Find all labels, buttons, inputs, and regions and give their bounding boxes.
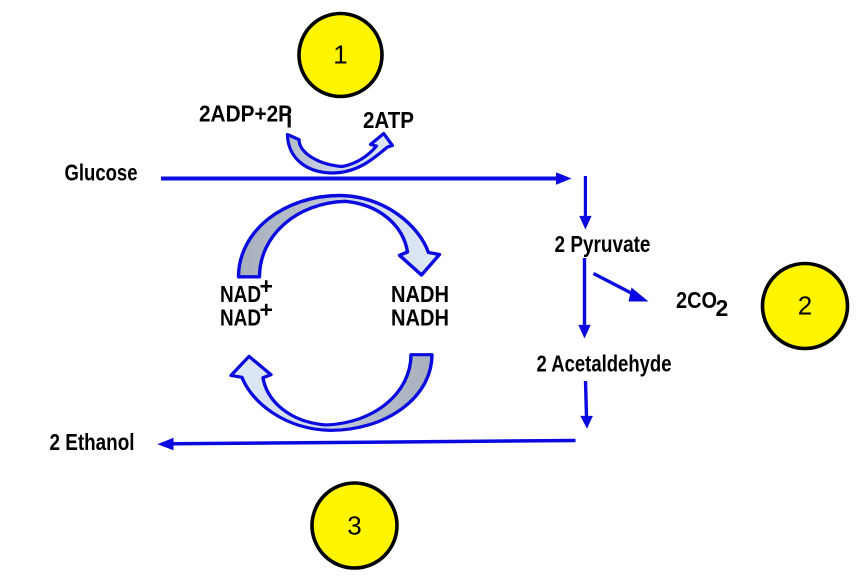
step circle 1: [299, 14, 382, 97]
svg-text:NADH: NADH: [391, 281, 449, 307]
svg-text:2: 2: [716, 295, 729, 321]
svg-text:2: 2: [798, 291, 812, 321]
svg-text:3: 3: [347, 511, 361, 541]
NAD+ / NADH cycle: top curved arrow: [239, 196, 440, 277]
arrow glucose to pyruvate (vertical): [579, 176, 591, 230]
svg-text:2 Acetaldehyde: 2 Acetaldehyde: [537, 351, 672, 377]
arrow acetaldehyde to ethanol (vertical): [580, 381, 593, 429]
label 2CO2: [676, 287, 728, 321]
step circle 3: [312, 483, 397, 568]
ATP curved arrow: [287, 134, 392, 174]
svg-text:2 Pyruvate: 2 Pyruvate: [555, 231, 651, 257]
step circle 2: [763, 264, 848, 349]
glucose arrow (horizontal): [161, 172, 572, 184]
svg-text:+: +: [260, 273, 273, 299]
svg-text:Glucose: Glucose: [65, 159, 138, 185]
svg-text:1: 1: [333, 40, 347, 70]
arrow acetaldehyde to ethanol (long horizontal return): [157, 438, 575, 450]
svg-text:+: +: [260, 296, 273, 322]
svg-text:2CO: 2CO: [676, 287, 717, 313]
svg-text:2ADP+2P: 2ADP+2P: [199, 101, 292, 127]
svg-text:2ATP: 2ATP: [363, 107, 414, 133]
svg-text:NADH: NADH: [391, 304, 449, 330]
svg-text:2 Ethanol: 2 Ethanol: [50, 429, 135, 455]
svg-text:i: i: [286, 107, 292, 133]
arrow pyruvate to acetaldehyde (vertical): [578, 258, 590, 339]
arrow pyruvate to CO2 (diagonal): [594, 274, 649, 302]
label NAD+ line1: [220, 273, 273, 307]
svg-text:NAD: NAD: [220, 304, 261, 330]
label 2ADP+2Pi: [199, 101, 292, 133]
label NAD+ line2: [220, 296, 273, 330]
NAD+ / NADH cycle: bottom curved arrow: [231, 355, 432, 431]
svg-text:NAD: NAD: [220, 281, 261, 307]
